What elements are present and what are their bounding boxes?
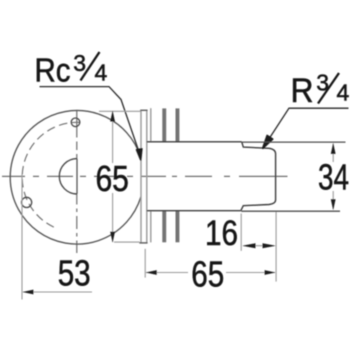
- horizontal center line (dash-dot axis through both views): [2, 175, 288, 177]
- collar bar 2 lower: [176, 211, 180, 243]
- collar bar 2 upper: [176, 108, 180, 141]
- R 3/4 label leader: [265, 108, 348, 144]
- 16 left arrow: [242, 243, 255, 248]
- 53 dimension line: [23, 291, 92, 293]
- flange right edge (side view): [146, 110, 148, 243]
- svg-text:65: 65: [95, 158, 129, 199]
- 16 dimension left extension: [240, 214, 242, 251]
- body top edge: [147, 141, 242, 143]
- 65 vertical dimension extension top: [99, 110, 141, 112]
- bottom 65 dimension line left part: [146, 272, 188, 274]
- 53 dimension extension line: [21, 175, 23, 300]
- svg-text:R: R: [291, 72, 314, 110]
- R leader arrowhead: [263, 136, 273, 149]
- center hole chord line: [76, 159, 78, 194]
- 53 left arrow: [23, 290, 34, 295]
- 34 top arrow: [331, 143, 336, 154]
- bottom 65 dimension left extension: [144, 249, 146, 278]
- flange top edge: [140, 109, 147, 111]
- 16 right arrow: [263, 243, 276, 248]
- svg-text:3: 3: [73, 50, 86, 76]
- svg-text:34: 34: [318, 157, 349, 198]
- bottom 65 right arrow: [265, 270, 276, 275]
- bolt circle (dashed): [22, 122, 84, 227]
- 65 bottom arrow: [110, 232, 115, 243]
- collar bar 1 upper: [162, 108, 166, 141]
- body bottom edge: [147, 210, 241, 212]
- threaded end outline: [241, 142, 276, 211]
- svg-text:4: 4: [95, 59, 108, 85]
- svg-text:Rc: Rc: [35, 52, 71, 89]
- 34 dimension line upper stub: [332, 144, 334, 163]
- Rc leader arrowhead: [137, 149, 142, 160]
- svg-text:53: 53: [58, 252, 91, 293]
- svg-text:16: 16: [205, 214, 238, 253]
- 65 vertical dimension line lower: [112, 193, 114, 242]
- 34 bottom arrow: [331, 199, 336, 210]
- vertical center line of flange front view: [76, 110, 78, 253]
- top mounting hole: [71, 118, 80, 127]
- center hole semicircle: [59, 159, 77, 194]
- flange outer circle (front view): [10, 111, 141, 245]
- collar line lower: [150, 211, 152, 243]
- flange bottom edge: [139, 242, 147, 244]
- 34 dimension top extension: [242, 141, 346, 143]
- Rc fraction slash: [81, 52, 100, 81]
- bottom 65 / 16 right extension: [275, 212, 277, 282]
- R fraction slash: [318, 73, 339, 104]
- bottom 65 dimension line right part: [226, 272, 275, 274]
- svg-text:65: 65: [191, 253, 224, 294]
- flange left edge (side view): [140, 110, 142, 243]
- collar line upper: [150, 108, 152, 142]
- 34 dimension bottom extension: [241, 210, 340, 212]
- svg-text:4: 4: [337, 80, 350, 106]
- 34 dimension line lower stub: [332, 191, 334, 209]
- 16 dimension line: [254, 245, 264, 247]
- Rc 3/4 label leader: [40, 87, 140, 155]
- bottom 65 left arrow: [146, 270, 157, 275]
- collar bar 1 lower: [162, 211, 166, 243]
- 65 vertical dimension extension bottom: [114, 241, 140, 243]
- lower-left mounting hole: [22, 197, 32, 207]
- 65 top arrow: [110, 111, 115, 122]
- 65 vertical dimension line upper: [112, 111, 114, 163]
